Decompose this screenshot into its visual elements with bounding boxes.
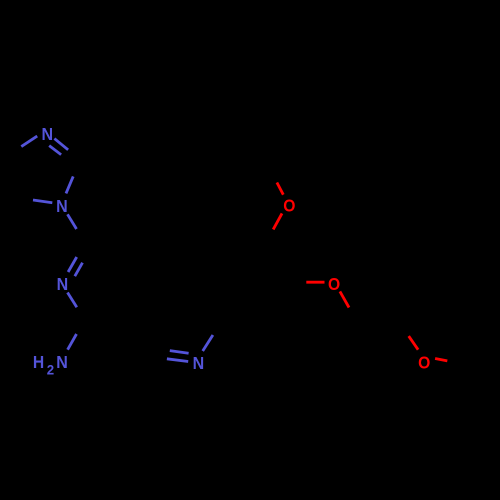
bond C=Nc lower line (167, 359, 188, 362)
svg-text:N: N (42, 124, 54, 144)
bond C=Nc upper line (170, 351, 189, 354)
bond C=Nb inner line (75, 263, 83, 277)
bond Nc-C (up right) (203, 335, 213, 351)
svg-text:O: O (283, 195, 295, 215)
bond N3-C4 (imidazole) (21, 136, 37, 147)
svg-text:N: N (193, 353, 205, 373)
bond C2-N1 (imidazole) (66, 176, 73, 193)
svg-text:N: N (57, 274, 69, 294)
svg-text:O: O (418, 352, 430, 372)
bond O2-CH2 (340, 291, 349, 307)
bond N1-C (to ring) (68, 214, 77, 229)
bond N3=C2 inner line (imidazole) (49, 146, 61, 155)
svg-text:O: O (328, 274, 340, 294)
bond CH3-O1 (277, 183, 283, 195)
svg-text:N: N (56, 196, 68, 216)
bond C=Nb main line (68, 257, 77, 272)
svg-text:2: 2 (47, 362, 55, 377)
svg-text:N: N (56, 352, 68, 372)
bond C5-N1 (imidazole) (33, 200, 52, 203)
bond NH2-C (68, 334, 77, 350)
bond O3-CH3 (435, 359, 447, 361)
bond Cring-O2 (306, 281, 324, 284)
bond N3=C2 main line (imidazole) (54, 139, 68, 150)
bond O1-Cring (273, 213, 282, 229)
bond Nb-C (down) (68, 293, 77, 308)
bond CH2-O3 (409, 336, 418, 350)
svg-text:H: H (33, 352, 44, 372)
